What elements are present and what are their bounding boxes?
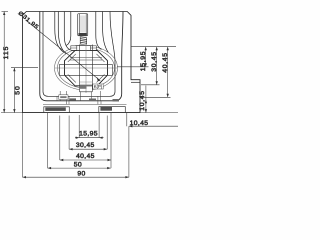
dimension texts <box>3 10 169 178</box>
svg-text:15,95: 15,95 <box>140 51 147 72</box>
svg-text:10,45: 10,45 <box>130 120 149 127</box>
diameter leader <box>26 20 101 81</box>
bottom dims <box>22 113 24 177</box>
right top extension <box>131 46 176 48</box>
right 30.45 <box>156 47 158 85</box>
centerlines <box>55 43 117 93</box>
outer funnel channel wall <box>40 12 123 101</box>
ring circles around window <box>55 46 118 90</box>
window octagon <box>65 51 108 86</box>
svg-text:30,45: 30,45 <box>76 142 95 149</box>
busbar cross bands <box>60 45 113 92</box>
screw thread <box>80 37 87 45</box>
svg-text:10,45: 10,45 <box>139 90 146 111</box>
svg-text:90: 90 <box>77 171 85 178</box>
svg-text:30,45: 30,45 <box>151 51 158 72</box>
svg-text:40,45: 40,45 <box>162 52 169 73</box>
right 15.95 <box>145 47 147 67</box>
corner chamfer inner segments <box>68 54 76 62</box>
svg-text:40,45: 40,45 <box>76 153 95 160</box>
right 10.45 vertical <box>145 86 147 113</box>
right 40.45 <box>167 47 169 98</box>
second funnel pair into ring <box>55 12 64 53</box>
svg-text:15,95: 15,95 <box>79 131 98 138</box>
svg-text:K(P): K(P) <box>94 84 103 89</box>
clamp body <box>70 46 102 60</box>
feet <box>44 107 126 113</box>
flange lip line <box>131 81 140 83</box>
svg-text:115: 115 <box>3 46 10 60</box>
terminal pocket walls <box>64 12 70 50</box>
bottom interior details <box>43 86 127 104</box>
30.45 <box>69 148 107 150</box>
50 <box>48 167 111 169</box>
inner funnel channel wall <box>43 12 115 97</box>
screw housing <box>78 14 88 36</box>
svg-text:50: 50 <box>14 85 21 95</box>
90 <box>23 176 129 178</box>
body outline <box>23 12 141 113</box>
15.95 <box>75 137 104 139</box>
40.45 <box>60 159 111 161</box>
busbar cross band white masks <box>60 45 113 92</box>
left 50 dim <box>13 68 15 113</box>
left 115 dim <box>3 12 5 113</box>
svg-text:50: 50 <box>74 162 82 169</box>
K(P) label <box>93 84 103 89</box>
10.45 horizontal <box>126 113 128 126</box>
